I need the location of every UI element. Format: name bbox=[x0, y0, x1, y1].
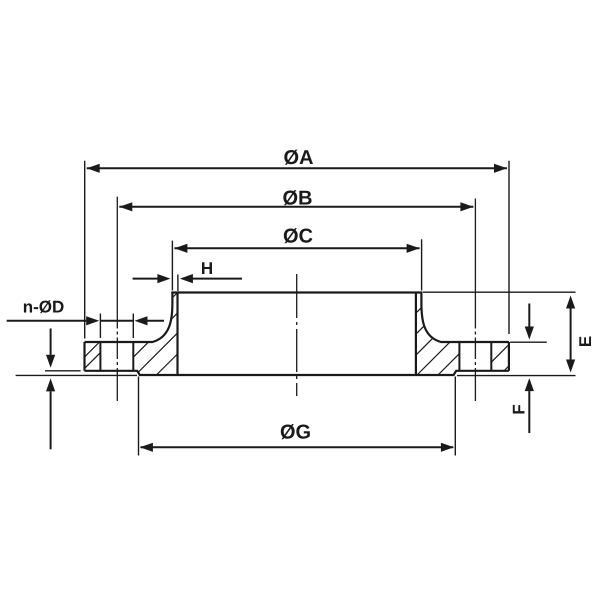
OC extension line right bbox=[421, 239, 423, 290]
plate right edge bbox=[508, 342, 510, 371]
n-OD extension line right bbox=[132, 314, 134, 339]
F up arrow bbox=[528, 391, 530, 433]
bore wall right bbox=[415, 293, 417, 376]
OB dimension line bbox=[119, 206, 473, 208]
bolt hole right wall b bbox=[490, 342, 492, 371]
bore wall left bbox=[176, 293, 178, 376]
flange outline: plate top left + hub left wall bbox=[85, 293, 173, 343]
label H bbox=[202, 262, 212, 274]
n-OD dimension arrow right bbox=[148, 320, 165, 322]
OC extension line left bbox=[171, 241, 173, 291]
plate bottom with raised face step bbox=[85, 371, 509, 375]
label OG bbox=[281, 424, 310, 439]
label OB bbox=[283, 190, 311, 205]
raised face down arrow left bbox=[50, 329, 52, 355]
raised face tick left (plate bottom) bbox=[45, 370, 81, 372]
H dimension arrow left bbox=[133, 278, 158, 280]
bolt hole right wall a bbox=[458, 342, 460, 371]
E dimension double arrow bbox=[570, 308, 572, 361]
OG extension line left bbox=[138, 377, 140, 456]
plate left edge bbox=[83, 342, 85, 371]
hatching left hub section bbox=[94, 291, 240, 376]
F tick at plate top right bbox=[510, 341, 547, 343]
bolt hole left wall b bbox=[132, 342, 134, 371]
hatching right outer rim bbox=[482, 341, 534, 372]
back face extension line left bbox=[16, 374, 137, 376]
OA extension line right bbox=[508, 161, 510, 334]
centerline main axis bbox=[296, 274, 298, 396]
hatching left outer rim bbox=[70, 341, 113, 372]
OA dimension line bbox=[87, 167, 507, 169]
OA extension line left bbox=[84, 161, 86, 339]
label OC bbox=[284, 228, 313, 243]
label OA bbox=[284, 150, 313, 165]
hatching right hub section bbox=[353, 291, 522, 376]
E extension line bottom (back face) bbox=[457, 375, 576, 377]
n-OD dimension arrow left bbox=[7, 320, 87, 322]
H dimension arrow right bbox=[192, 278, 242, 280]
OG extension line right bbox=[454, 377, 456, 456]
label E bbox=[579, 336, 591, 346]
n-OD extension line left bbox=[99, 314, 101, 339]
OG dimension line bbox=[141, 446, 454, 448]
OC dimension line bbox=[174, 247, 419, 249]
centerline left bolt hole bbox=[116, 197, 118, 401]
hub right wall + plate top right bbox=[421, 293, 509, 343]
raised face up arrow left bbox=[50, 391, 52, 449]
label F bbox=[513, 405, 525, 414]
label n-OD bbox=[24, 300, 64, 313]
F down arrow bbox=[528, 304, 530, 327]
bolt hole left wall a bbox=[99, 342, 101, 371]
n-OD dimension line across hole bbox=[100, 320, 133, 322]
centerline right bolt hole bbox=[474, 199, 476, 402]
H extension line at bore edge bbox=[177, 275, 179, 292]
E extension line top (hub face) bbox=[423, 291, 576, 293]
hub top face bbox=[171, 291, 422, 293]
